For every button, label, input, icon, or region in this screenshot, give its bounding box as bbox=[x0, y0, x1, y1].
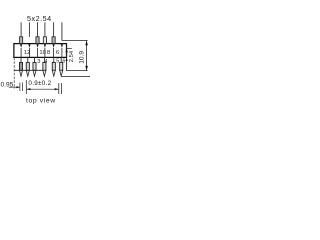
svg-text:5x2.54: 5x2.54 bbox=[27, 14, 52, 23]
svg-text:0.9±0.2: 0.9±0.2 bbox=[28, 80, 51, 87]
svg-text:10: 10 bbox=[39, 50, 46, 56]
svg-text:top view: top view bbox=[26, 98, 56, 105]
svg-text:10.9: 10.9 bbox=[79, 51, 86, 64]
svg-text:3: 3 bbox=[37, 59, 40, 65]
svg-text:12: 12 bbox=[24, 50, 31, 56]
svg-text:2.54: 2.54 bbox=[69, 50, 75, 62]
svg-text:5: 5 bbox=[56, 59, 59, 65]
